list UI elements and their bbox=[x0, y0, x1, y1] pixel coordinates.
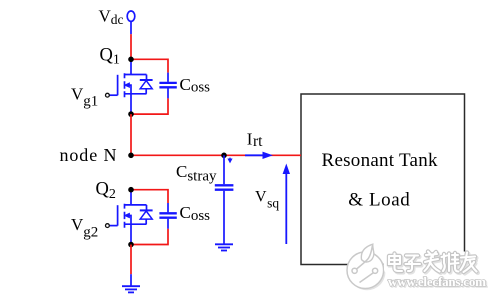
svg-text:Resonant Tank: Resonant Tank bbox=[322, 150, 439, 171]
capacitor Coss of Q2 (parallel branch) bbox=[131, 190, 177, 245]
svg-text:& Load: & Load bbox=[348, 190, 410, 211]
watermark logo shadow bbox=[349, 253, 386, 290]
polarity tick at Cstray tap bbox=[229, 158, 232, 162]
wire Q1 source to node N bbox=[130, 114, 132, 155]
node Cstray tap junction bbox=[221, 153, 227, 159]
node Q2 drain junction bbox=[128, 187, 134, 193]
ground of Q2 source bbox=[122, 286, 140, 292]
watermark chinese text 电子发烧友 bbox=[384, 252, 479, 274]
transistor Q2 bbox=[106, 190, 153, 245]
glimpse of box bottom edge through watermark bbox=[449, 263, 457, 265]
arrow Vsq (square-wave voltage) bbox=[283, 165, 289, 244]
watermark logo circle bbox=[347, 252, 384, 289]
ground of Cstray bbox=[215, 244, 233, 250]
capacitor Coss of Q1 (parallel branch) bbox=[131, 59, 177, 114]
svg-text:www.elecfans.com: www.elecfans.com bbox=[388, 274, 486, 289]
terminal Vdc bbox=[127, 11, 135, 21]
watermark logo leaf bbox=[361, 244, 374, 262]
watermark url www.elecfans.com bbox=[388, 274, 487, 290]
arrow Irt (resonant tank current) bbox=[245, 152, 272, 158]
watermark logo cable bbox=[352, 246, 378, 283]
svg-text:Irt: Irt bbox=[247, 129, 263, 150]
node Q1 source junction bbox=[128, 111, 134, 117]
node Q1 drain junction bbox=[128, 57, 134, 63]
transistor Q1 bbox=[106, 59, 153, 114]
svg-text:node N: node N bbox=[60, 145, 117, 165]
node N junction bbox=[128, 153, 134, 159]
wire node N to Resonant Tank bbox=[131, 154, 301, 156]
node Q2 source junction bbox=[128, 242, 134, 248]
capacitor Cstray bbox=[215, 155, 234, 244]
wire Vdc to Q1 drain bbox=[130, 22, 132, 60]
block Resonant Tank & Load bbox=[301, 94, 465, 265]
wire Q2 source to ground bbox=[130, 245, 132, 287]
